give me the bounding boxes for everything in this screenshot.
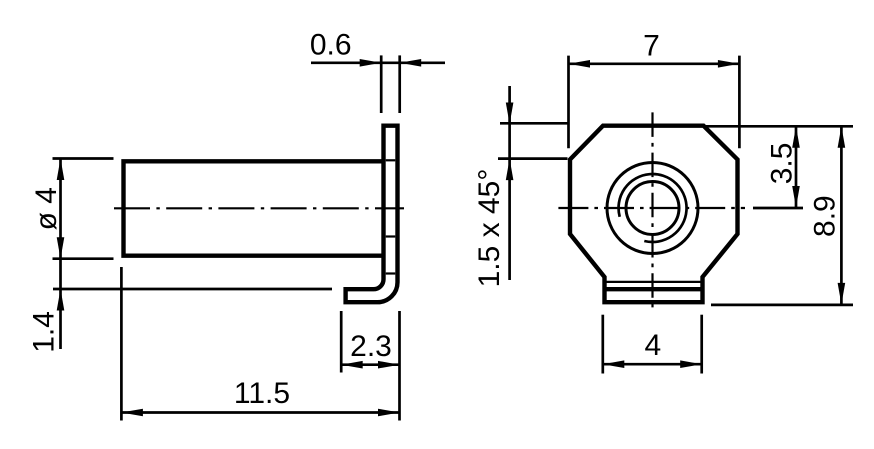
svg-text:1.4: 1.4 — [28, 311, 61, 353]
svg-text:1.5 x 45°: 1.5 x 45° — [473, 169, 506, 288]
svg-text:ø 4: ø 4 — [30, 187, 63, 230]
svg-text:8.9: 8.9 — [809, 195, 842, 237]
svg-text:2.3: 2.3 — [350, 330, 392, 363]
svg-text:3.5: 3.5 — [766, 143, 799, 185]
svg-text:11.5: 11.5 — [234, 377, 290, 410]
svg-text:7: 7 — [643, 30, 660, 63]
svg-text:4: 4 — [644, 329, 661, 362]
svg-text:0.6: 0.6 — [310, 29, 352, 62]
